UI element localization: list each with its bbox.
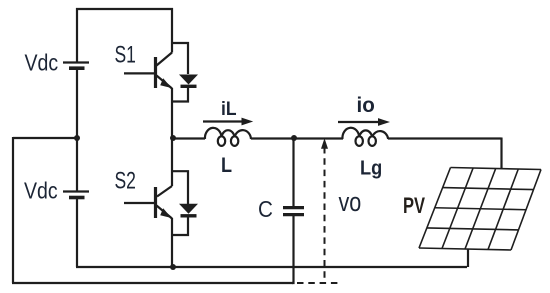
PV panel xyxy=(419,168,541,251)
svg-text:Vdc: Vdc xyxy=(25,50,59,76)
svg-text:Lg: Lg xyxy=(360,158,382,180)
diode D1 xyxy=(179,75,198,87)
node phase dot xyxy=(170,135,176,141)
current arrow iL xyxy=(203,118,253,126)
wire left vertical middle xyxy=(76,68,78,191)
svg-text:S2: S2 xyxy=(115,168,136,194)
wire bottom inner rail xyxy=(76,266,467,268)
wire PV top drop xyxy=(500,138,502,169)
diode D2 xyxy=(179,204,198,216)
capacitor C xyxy=(283,208,304,215)
transistor Q S2 xyxy=(124,186,172,219)
wire bottom outer rail xyxy=(12,282,293,284)
capacitor C branch upper xyxy=(292,138,294,206)
wire left vertical lower xyxy=(76,198,78,268)
wire phase leg top (collector S1) xyxy=(171,8,173,53)
wire phase mid (S2 collector) xyxy=(171,138,173,186)
wire L to cap node xyxy=(251,137,294,139)
transistor Q S1 xyxy=(124,53,172,89)
wire S1 emitter to mid node xyxy=(171,88,173,138)
inductor Lg xyxy=(342,128,388,146)
vo arrow head xyxy=(321,138,328,149)
svg-text:L: L xyxy=(221,154,232,178)
svg-text:S1: S1 xyxy=(115,42,136,68)
node DC midpoint dot xyxy=(74,135,80,141)
svg-text:PV: PV xyxy=(403,194,425,219)
svg-text:Vdc: Vdc xyxy=(24,178,58,204)
wire Lg to PV top xyxy=(388,137,502,139)
wire top rail xyxy=(76,8,173,10)
svg-text:iL: iL xyxy=(221,97,237,119)
wire cap node to Lg xyxy=(294,137,343,139)
node S2 emitter / bottom rail dot xyxy=(170,264,176,270)
wire outer-left vertical xyxy=(12,137,14,283)
inductor L xyxy=(205,128,251,146)
current arrow io xyxy=(338,118,390,126)
svg-text:C: C xyxy=(258,196,273,223)
measurement vo dashed line xyxy=(297,147,341,283)
capacitor C branch lower xyxy=(292,216,294,283)
battery Vdc (top) xyxy=(63,63,89,69)
battery Vdc (bottom) xyxy=(63,192,89,198)
node cap junction dot xyxy=(291,135,297,141)
wire PV bottom drop xyxy=(467,249,469,267)
svg-text:io: io xyxy=(357,94,375,117)
wire S2 emitter to bottom rail xyxy=(171,218,173,267)
wire left vertical upper xyxy=(76,8,78,62)
diode D1 branch xyxy=(172,43,188,102)
svg-text:vo: vo xyxy=(339,188,362,218)
wire midpoint stub to outer loop xyxy=(13,137,77,139)
diode D2 branch xyxy=(172,171,188,235)
wire phase node to inductor L xyxy=(173,137,205,139)
